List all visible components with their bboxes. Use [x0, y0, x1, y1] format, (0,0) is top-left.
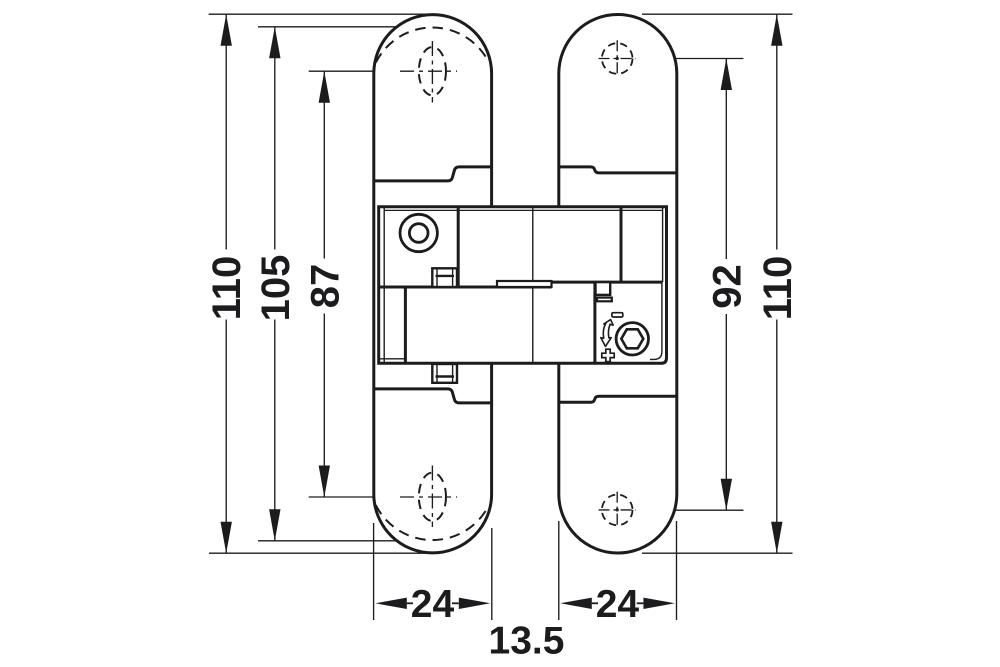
- dimension 92: bottom arrowhead: [721, 479, 732, 511]
- right leaf bottom drill crosshair circle: [602, 495, 633, 526]
- right leaf bottom crosshair horizontal: [599, 509, 637, 511]
- hinge body left inner thin vertical: [383, 207, 385, 363]
- dimension 87: bottom arrowhead: [319, 466, 330, 498]
- dimension 110 left: top extension line: [209, 13, 431, 15]
- svg-text:110: 110: [756, 256, 800, 321]
- right leaf bottom crosshair center dot: [616, 508, 619, 511]
- dimension 110 left: bottom arrowhead: [221, 522, 232, 554]
- dimension 92: dimension line: [725, 59, 727, 260]
- dimension 24 left: right arrowhead: [459, 598, 491, 609]
- upper arm right inner thin vertical: [662, 207, 664, 282]
- svg-text:105: 105: [254, 255, 298, 322]
- body middle parting line left: [379, 286, 552, 289]
- svg-text:92: 92: [705, 264, 749, 309]
- dimension 24 right: right arrowhead: [643, 598, 675, 609]
- upper arm right divider (thick): [620, 207, 623, 282]
- lower arm right divider (thick): [593, 282, 596, 363]
- upper clip tab: [432, 268, 457, 287]
- dimension 110 right: bottom arrowhead: [771, 522, 782, 554]
- right leaf top step line: [559, 167, 677, 173]
- left leaf countersink dashed arc top: [376, 28, 489, 63]
- left leaf top oblong screw hole (dashed): [419, 47, 446, 95]
- dimension 105: top arrowhead: [269, 27, 280, 59]
- minus mark: [612, 313, 623, 317]
- right leaf top crosshair vertical: [616, 40, 618, 77]
- dimension 110 right: bottom extension line: [642, 552, 793, 554]
- hinge body inner thin line below top: [384, 209, 662, 211]
- dimension 110 right: top extension line: [642, 13, 793, 15]
- lower arm right inner thin line with fillet: [650, 282, 662, 359]
- left leaf bottom step line: [374, 389, 492, 403]
- right leaf top crosshair center dot: [616, 57, 619, 60]
- dimension 24 left: left arrowhead: [375, 598, 407, 609]
- left hinge leaf outline: [374, 15, 492, 553]
- dimension 87: top arrowhead: [319, 71, 330, 103]
- dimension 92: bottom extension line: [640, 509, 744, 511]
- right leaf top crosshair horizontal: [599, 58, 637, 60]
- upper arm thin divider: [532, 207, 534, 281]
- dimension 24 left: right extension line: [491, 528, 493, 620]
- dimension 24 right: left extension line: [558, 521, 560, 620]
- dimension 105: dimension line: [274, 27, 276, 250]
- right leaf bottom crosshair vertical: [616, 492, 618, 529]
- left leaf top hole vertical centerline: [431, 41, 433, 103]
- svg-text:24: 24: [596, 583, 640, 626]
- adjustment hex screw outer circle: [616, 323, 648, 355]
- hinge body outline: [379, 207, 667, 363]
- left leaf bottom hole vertical centerline: [431, 466, 433, 528]
- dimension 110 left: dimension line: [225, 14, 227, 249]
- right leaf bottom step line: [559, 396, 677, 402]
- lower arm thin divider: [532, 287, 534, 363]
- upper arm divider (thick): [457, 207, 460, 287]
- svg-text:24: 24: [411, 583, 455, 626]
- dimension 24 left: left extension line: [373, 523, 375, 620]
- right leaf top drill crosshair circle: [602, 43, 633, 74]
- dimension 92: top arrowhead: [721, 59, 732, 91]
- pivot screw inner circle: [409, 224, 428, 243]
- left leaf top step line: [374, 167, 492, 181]
- dimension 24 right: left arrowhead: [560, 598, 592, 609]
- right small tab: [596, 282, 611, 295]
- dimension 92: top extension line: [640, 58, 744, 60]
- dimension 105: bottom arrowhead: [269, 509, 280, 541]
- overlap ledge plate: [497, 281, 552, 287]
- left leaf top hole horizontal centerline: [400, 70, 457, 72]
- dimension 110 left: bottom extension line: [209, 552, 431, 554]
- lower clip tab: [432, 364, 457, 383]
- dimension 110 left: top arrowhead: [221, 14, 232, 46]
- pivot screw outer circle: [400, 214, 437, 251]
- svg-text:110: 110: [205, 256, 249, 321]
- svg-text:13.5: 13.5: [489, 620, 565, 663]
- left leaf countersink dashed arc bottom: [376, 505, 489, 540]
- lower arm left divider (thick): [404, 287, 407, 363]
- dimension 24 right: right extension line: [676, 521, 678, 620]
- dimension 105: top extension line: [258, 26, 419, 28]
- dimension 110 right: dimension line: [776, 14, 778, 249]
- dimension 87: bottom extension line: [309, 496, 399, 498]
- adjustment direction curved arrow: [601, 320, 613, 347]
- dimension 87: top extension line: [309, 70, 399, 72]
- dimension 110 right: top arrowhead: [771, 14, 782, 46]
- right hinge leaf outline: [559, 15, 677, 554]
- dimension 87: dimension line: [323, 71, 325, 258]
- svg-text:87: 87: [303, 264, 347, 309]
- dimension 105: bottom extension line: [258, 540, 419, 542]
- hinge body lower-left thin line above bottom: [379, 358, 406, 360]
- body middle parting line right: [552, 281, 663, 284]
- adjustment hex socket: [621, 329, 643, 348]
- left leaf bottom oblong screw hole (dashed): [419, 473, 446, 521]
- left leaf bottom hole horizontal centerline: [400, 496, 457, 498]
- plus mark: [602, 349, 614, 361]
